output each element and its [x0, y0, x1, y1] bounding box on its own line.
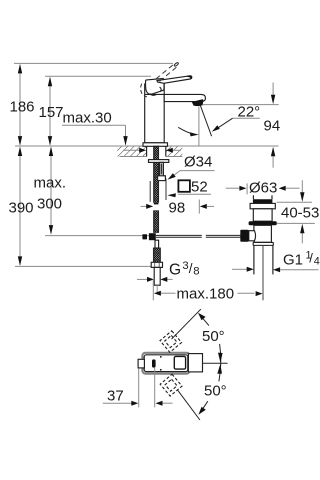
- svg-text:Ø34: Ø34: [184, 154, 212, 171]
- svg-text:94: 94: [264, 118, 281, 135]
- svg-text:4: 4: [314, 255, 320, 267]
- svg-text:/: /: [189, 261, 193, 276]
- svg-text:50°: 50°: [202, 328, 225, 345]
- svg-text:50°: 50°: [204, 383, 227, 400]
- svg-text:max.: max.: [34, 175, 67, 192]
- svg-text:52: 52: [191, 179, 208, 196]
- svg-text:G: G: [169, 262, 181, 279]
- svg-text:22°: 22°: [238, 104, 261, 121]
- svg-text:390: 390: [9, 200, 34, 217]
- svg-text:157: 157: [39, 104, 64, 121]
- svg-text:98: 98: [169, 200, 186, 217]
- svg-text:37: 37: [107, 388, 124, 405]
- svg-text:300: 300: [37, 196, 62, 213]
- svg-text:40-53: 40-53: [281, 205, 319, 222]
- svg-text:max.180: max.180: [177, 286, 235, 303]
- svg-text:8: 8: [193, 266, 199, 278]
- svg-text:max.30: max.30: [63, 110, 112, 127]
- svg-text:Ø63: Ø63: [249, 180, 277, 197]
- svg-text:186: 186: [10, 99, 35, 116]
- svg-text:G1: G1: [283, 251, 303, 268]
- svg-text:/: /: [309, 251, 313, 266]
